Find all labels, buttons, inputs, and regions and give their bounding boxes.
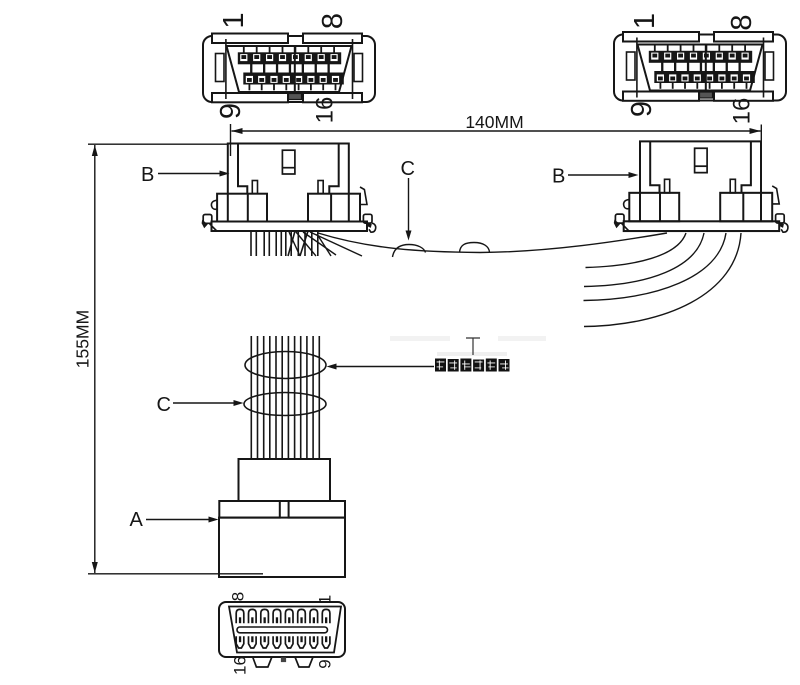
svg-text:140MM: 140MM xyxy=(465,112,523,132)
wire hop arc 2 xyxy=(460,243,490,253)
bundle wire 5 xyxy=(275,336,277,459)
OBD pin 13 xyxy=(285,636,293,648)
ghost smudge 1 xyxy=(390,336,450,341)
bundle wire 11 xyxy=(312,336,314,459)
OBD pin 16 xyxy=(322,636,330,648)
OBD pin 3 xyxy=(261,609,269,623)
svg-text:8: 8 xyxy=(229,592,248,601)
svg-text:A: A xyxy=(130,509,144,531)
dim 155MM arrow top xyxy=(92,145,98,156)
sweep wire 1 xyxy=(586,233,687,268)
dim 140MM arrow right xyxy=(750,128,761,134)
ghost smudge 2 xyxy=(498,336,546,341)
bundle wire 7 xyxy=(287,336,289,459)
OBD pin 2 xyxy=(249,609,257,623)
wire 7 (left connector tail) xyxy=(285,231,287,256)
svg-text:155MM: 155MM xyxy=(73,310,93,368)
dim 155MM arrow bottom xyxy=(92,562,98,573)
dim 140MM ext right xyxy=(760,125,762,158)
svg-text:C: C xyxy=(157,394,171,416)
ghost smudge 3 xyxy=(437,352,507,356)
OBD pin 14 xyxy=(298,636,306,648)
fan wire 3 xyxy=(303,232,336,255)
bundle wire 6 xyxy=(281,336,283,459)
dim 155MM ext bottom xyxy=(88,573,263,575)
OBD center stub xyxy=(281,657,286,662)
wire 10 (left connector tail) xyxy=(304,231,306,256)
OBD pin 6 xyxy=(298,609,306,623)
note text (black tape ties) xyxy=(435,359,510,372)
bundle wire 12 xyxy=(318,336,320,459)
OBD shell xyxy=(219,602,345,657)
strain relief left xyxy=(219,501,279,518)
OBD pin 7 xyxy=(310,609,318,623)
OBD pin 5 xyxy=(285,609,293,623)
OBD pin 9 xyxy=(236,636,244,648)
sweep wire 3 xyxy=(584,233,727,301)
OBD pin 8 xyxy=(322,609,330,623)
svg-text:8: 8 xyxy=(726,14,758,30)
wire 4 (left connector tail) xyxy=(268,231,270,256)
svg-text:8: 8 xyxy=(317,13,349,29)
OBD tab left xyxy=(253,657,272,667)
wire 1 (left connector tail) xyxy=(250,231,252,256)
OBD housing trapezoid xyxy=(229,607,341,653)
wire hop arc 1 xyxy=(393,245,426,258)
dim 140MM line xyxy=(232,130,761,132)
OBD pin 10 xyxy=(249,636,257,648)
svg-text:1: 1 xyxy=(316,595,335,604)
bundle wire 9 xyxy=(300,336,302,459)
dim 155MM ext top xyxy=(88,143,228,145)
OBD pin 15 xyxy=(310,636,318,648)
dim 155MM line xyxy=(94,145,96,573)
fan wire 5 xyxy=(317,234,331,256)
connector J1 front view (top-left 16-pin) xyxy=(203,34,375,103)
wire 2 (left connector tail) xyxy=(255,231,257,256)
cable tie ellipse lower xyxy=(244,393,326,416)
svg-text:16: 16 xyxy=(231,656,250,675)
dim 140MM ext left xyxy=(230,124,232,156)
bundle wire 2 xyxy=(257,336,259,459)
bundle wire 10 xyxy=(306,336,308,459)
OBD pin 1 xyxy=(236,609,244,623)
wire crossing in hatch xyxy=(288,231,295,256)
wire 8 (left connector tail) xyxy=(290,231,292,256)
cable tie ellipse upper xyxy=(245,352,326,379)
strain relief right xyxy=(289,501,345,518)
bundle wire 4 xyxy=(269,336,271,459)
svg-text:16: 16 xyxy=(312,97,339,124)
svg-text:9: 9 xyxy=(215,103,247,119)
leader A xyxy=(146,519,211,521)
wire 12 (left connector tail) xyxy=(317,231,319,256)
wire 6 (left connector tail) xyxy=(280,231,282,256)
wire 11 (left connector tail) xyxy=(311,231,313,256)
tick mark above note xyxy=(466,338,480,355)
fan wire 2 xyxy=(296,232,316,256)
sweep wire 4 xyxy=(584,233,741,327)
connector B side view (right) xyxy=(614,141,788,232)
OBD pin 12 xyxy=(273,636,281,648)
leader B right xyxy=(568,174,631,176)
wire 5 (left connector tail) xyxy=(275,231,277,256)
bundle wire 8 xyxy=(294,336,296,459)
OBD center slot xyxy=(237,627,328,633)
svg-text:B: B xyxy=(552,166,565,188)
leader C upper xyxy=(408,178,410,233)
wire 3 (left connector tail) xyxy=(263,231,265,256)
OBD pin 4 xyxy=(273,609,281,623)
leader C lower xyxy=(173,402,236,404)
bundle wire 1 xyxy=(250,336,252,459)
svg-text:9: 9 xyxy=(316,659,335,668)
OBD tab right xyxy=(295,657,313,667)
boot neck xyxy=(239,459,331,501)
fan wire 4 xyxy=(310,232,362,256)
svg-text:1: 1 xyxy=(629,13,661,29)
OBD pin 11 xyxy=(261,636,269,648)
sweep wire 2 xyxy=(584,233,704,287)
connector B side view (left) xyxy=(202,144,376,233)
leader B left xyxy=(158,173,222,175)
wire 9 (left connector tail) xyxy=(297,231,299,256)
svg-text:9: 9 xyxy=(626,101,658,117)
note leader arrow xyxy=(327,364,337,370)
boot body xyxy=(219,518,345,577)
svg-text:C: C xyxy=(401,158,415,180)
svg-text:1: 1 xyxy=(218,12,250,28)
bundle wire 3 xyxy=(263,336,265,459)
svg-text:16: 16 xyxy=(729,98,756,125)
dim 140MM arrow left xyxy=(232,128,243,134)
sag wire to right connector xyxy=(318,233,667,253)
connector J2 front view (top-right 16-pin) xyxy=(614,32,786,101)
fan wire 1 xyxy=(289,232,300,256)
svg-text:B: B xyxy=(141,164,154,186)
wire crossing in hatch 2 xyxy=(300,231,308,256)
